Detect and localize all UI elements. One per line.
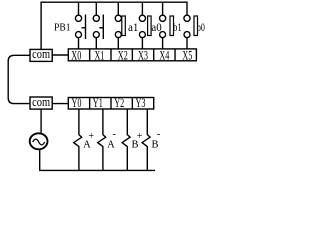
svg-text:-: - <box>157 128 161 140</box>
svg-text:+: + <box>137 131 143 142</box>
svg-text:Y2: Y2 <box>114 96 124 110</box>
svg-text:a0: a0 <box>151 20 161 34</box>
svg-text:X4: X4 <box>159 48 169 62</box>
svg-text:A: A <box>107 140 115 151</box>
svg-text:X2: X2 <box>118 48 128 62</box>
svg-text:-: - <box>112 128 116 140</box>
svg-text:Y1: Y1 <box>93 96 103 110</box>
svg-text:PB1: PB1 <box>54 21 71 33</box>
svg-text:b1: b1 <box>173 20 182 34</box>
svg-text:b0: b0 <box>197 20 205 34</box>
svg-text:X3: X3 <box>138 48 148 62</box>
svg-text:a1: a1 <box>128 20 139 34</box>
svg-text:com: com <box>32 95 50 109</box>
svg-text:X1: X1 <box>95 48 105 62</box>
svg-text:com: com <box>32 47 50 61</box>
svg-text:Y0: Y0 <box>72 96 82 110</box>
svg-text:X0: X0 <box>71 48 81 62</box>
svg-text:Y3: Y3 <box>136 96 146 110</box>
svg-text:B: B <box>152 140 159 151</box>
svg-text:X5: X5 <box>182 48 192 62</box>
svg-text:+: + <box>88 131 94 142</box>
